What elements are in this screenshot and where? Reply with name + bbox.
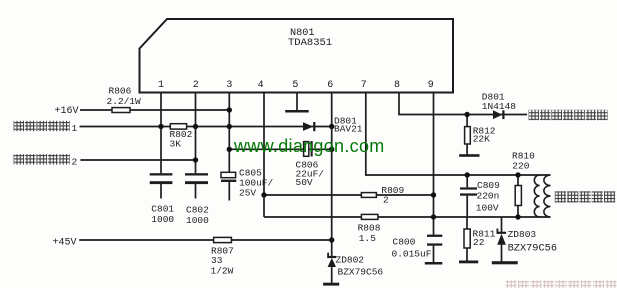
svg-text:R808: R808 <box>358 223 381 234</box>
svg-text:ZD803: ZD803 <box>508 229 537 240</box>
svg-text:BAV21: BAV21 <box>334 124 363 135</box>
svg-text:1: 1 <box>158 80 164 91</box>
svg-text:TDA8351: TDA8351 <box>288 37 332 49</box>
svg-text:1: 1 <box>72 123 78 134</box>
svg-text:8: 8 <box>394 80 400 91</box>
svg-text:33: 33 <box>211 255 223 266</box>
svg-text:2: 2 <box>193 80 199 91</box>
svg-text:C809: C809 <box>477 180 500 191</box>
svg-text:+45V: +45V <box>53 238 77 249</box>
svg-text:220n: 220n <box>477 191 500 202</box>
svg-text:BZX79C56: BZX79C56 <box>338 267 384 278</box>
svg-text:2.2/1W: 2.2/1W <box>107 96 142 107</box>
svg-text:5: 5 <box>292 80 298 91</box>
svg-text:3K: 3K <box>170 139 182 150</box>
svg-text:6: 6 <box>327 80 333 91</box>
svg-text:0.015uF: 0.015uF <box>392 249 432 260</box>
svg-text:BZX79C56: BZX79C56 <box>508 243 557 255</box>
svg-text:220: 220 <box>512 161 529 172</box>
svg-text:C802: C802 <box>186 205 209 216</box>
svg-text:R806: R806 <box>109 86 132 97</box>
svg-text:22K: 22K <box>473 134 490 145</box>
svg-text:C801: C801 <box>151 204 174 215</box>
svg-text:25V: 25V <box>239 188 256 199</box>
svg-text:1000: 1000 <box>186 215 209 226</box>
svg-text:1/2W: 1/2W <box>211 266 234 277</box>
svg-text:7: 7 <box>361 80 367 91</box>
svg-text:1.5: 1.5 <box>359 233 376 244</box>
svg-text:3: 3 <box>226 80 232 91</box>
svg-text:2: 2 <box>72 157 78 168</box>
svg-text:C800: C800 <box>393 237 416 248</box>
svg-text:22: 22 <box>473 237 485 248</box>
svg-text:1N4148: 1N4148 <box>482 101 517 112</box>
svg-text:50V: 50V <box>296 177 313 188</box>
svg-text:+16V: +16V <box>55 106 79 117</box>
svg-text:www.diangon.com: www.diangon.com <box>233 136 385 156</box>
svg-text:ZD802: ZD802 <box>336 255 365 266</box>
svg-text:2: 2 <box>383 194 389 205</box>
svg-text:100V: 100V <box>476 203 499 214</box>
svg-text:1000: 1000 <box>151 214 174 225</box>
svg-text:9: 9 <box>428 80 434 91</box>
svg-text:4: 4 <box>258 80 264 91</box>
